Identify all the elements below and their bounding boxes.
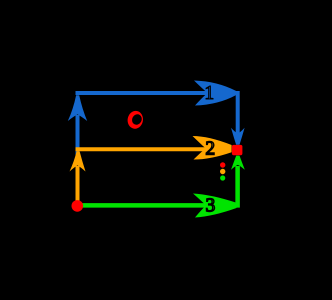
wire: orange path 2 vertical segment from start point bbox=[76, 166, 80, 205]
wire: green path 3 horizontal segment from start point bbox=[82, 166, 238, 205]
ellipsis dot orange bbox=[220, 169, 225, 174]
arrowhead: big blue head of arrow 1 bbox=[194, 81, 236, 106]
svg-text:2: 2 bbox=[205, 138, 215, 159]
node: end point red dot bbox=[232, 145, 243, 155]
arrowhead: green up arrow into end point bbox=[231, 156, 245, 170]
svg-text:3: 3 bbox=[206, 196, 216, 217]
ellipsis dot red bbox=[220, 162, 225, 167]
label O (red) marking region bbox=[126, 110, 144, 130]
ellipsis dot green bbox=[220, 175, 225, 180]
node: start point red dot bbox=[72, 200, 84, 212]
wire: blue path 1 vertical-left segment bbox=[76, 115, 80, 156]
arrowhead: blue down arrow into end point bbox=[231, 128, 245, 145]
arrowhead: big orange head of arrow 2 bbox=[193, 136, 232, 160]
arrowhead: orange up arrow (path 2 left) bbox=[70, 151, 86, 171]
wire: blue path 1 horizontal segment bbox=[76, 93, 238, 135]
arrowhead: big green head of arrow 3 bbox=[193, 194, 237, 218]
arrowhead: blue up arrow (path 1 left) bbox=[68, 95, 87, 121]
svg-text:1: 1 bbox=[204, 83, 214, 104]
wire: orange path 2 horizontal segment bbox=[76, 147, 208, 151]
